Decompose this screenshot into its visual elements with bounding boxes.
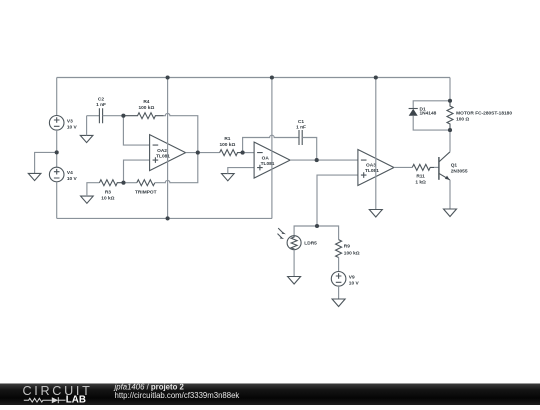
op-amp OA xyxy=(254,142,290,178)
wire left rail bottom xyxy=(56,182,58,219)
svg-text:10 V: 10 V xyxy=(349,280,360,286)
wire node down to OA2 minus input xyxy=(123,116,149,145)
wire OA3 output to R11 xyxy=(394,166,412,168)
svg-text:C2: C2 xyxy=(98,97,104,103)
wire V3 to node xyxy=(56,130,58,167)
svg-text:100 kΩ: 100 kΩ xyxy=(344,250,360,256)
wire node up to OA2 plus input xyxy=(124,160,150,183)
resistor R9 xyxy=(336,240,360,258)
resistor R4 xyxy=(123,99,163,119)
op-amp OA3 xyxy=(358,150,394,186)
svg-text:LDR5: LDR5 xyxy=(304,241,317,247)
ground for OA plus input xyxy=(222,174,235,181)
svg-text:10 V: 10 V xyxy=(67,176,78,182)
op-amp OA2 xyxy=(150,135,186,171)
wire OA2 output to R1 xyxy=(186,152,220,154)
svg-text:LAB: LAB xyxy=(66,395,86,405)
svg-text:1 nF: 1 nF xyxy=(296,125,306,131)
wire node to trimpot xyxy=(124,182,137,184)
resistor R1 xyxy=(219,136,242,155)
ground for OA3 xyxy=(369,210,382,218)
wire R3 left to ground xyxy=(87,183,100,196)
wire top rail right corner down xyxy=(449,78,451,101)
wire emitter down xyxy=(449,180,451,209)
wire D1 bottom branch xyxy=(413,116,450,131)
svg-text:TRIMPOT: TRIMPOT xyxy=(135,190,157,196)
node OA2 Vplus on top rail xyxy=(166,75,170,79)
wire collector up xyxy=(449,130,451,152)
node R3/TRIMPOT xyxy=(121,181,125,185)
footer bar xyxy=(0,383,540,405)
svg-text:R3: R3 xyxy=(105,190,111,196)
node OA output / C1 xyxy=(315,158,319,162)
node OA2 output xyxy=(196,151,200,155)
svg-text:MOTOR FC-280ST-18180: MOTOR FC-280ST-18180 xyxy=(456,111,512,117)
wire bottom rail xyxy=(57,217,272,219)
wire OA3 Vminus stub to ground xyxy=(375,186,377,210)
ground for C2 xyxy=(80,135,93,142)
voltage source V3 xyxy=(49,116,77,131)
wire C1 down to OA output xyxy=(302,138,317,161)
svg-text:V3: V3 xyxy=(67,118,73,124)
svg-text:OA2: OA2 xyxy=(157,148,167,154)
wire ground to C2 xyxy=(87,115,100,117)
wire node to left ground xyxy=(35,152,57,173)
node motor bottom xyxy=(448,128,452,132)
svg-text:V4: V4 xyxy=(67,170,73,176)
wire top rail xyxy=(57,77,450,79)
capacitor C1 xyxy=(296,119,306,145)
svg-text:TL081: TL081 xyxy=(261,161,275,167)
svg-text:1N4148: 1N4148 xyxy=(420,111,437,117)
wire R11 to base xyxy=(434,166,439,168)
transistor Q1 xyxy=(439,152,468,180)
wire node to OA minus input xyxy=(243,152,255,154)
wire OA3 plus input left and down xyxy=(317,175,358,226)
ground for R3 xyxy=(81,196,94,203)
wire node to R9 xyxy=(317,226,339,240)
motor (resistor symbol) xyxy=(447,101,512,130)
wire OA3 supply top xyxy=(375,78,377,186)
svg-text:C1: C1 xyxy=(298,119,304,125)
node OA2 Vminus on bottom rail xyxy=(166,216,170,220)
wire feedback up and right to C1 with hop over OA supply xyxy=(243,135,299,152)
wire OA2 supply rail vertical xyxy=(167,78,169,219)
svg-text:Q1: Q1 xyxy=(451,162,458,168)
svg-text:100 kΩ: 100 kΩ xyxy=(138,105,154,111)
photoresistor LDR5 xyxy=(278,228,318,250)
ground for LDR xyxy=(288,277,301,285)
node left rail mid xyxy=(55,150,59,154)
wire OA output to OA3 minus xyxy=(290,159,358,161)
capacitor C2 xyxy=(96,97,106,124)
wire R9 to V9 xyxy=(338,258,340,272)
svg-text:R11: R11 xyxy=(416,174,425,180)
wire R4 to corner with hop over OA2 supply xyxy=(164,113,198,152)
node motor top xyxy=(448,99,452,103)
svg-text:1 kΩ: 1 kΩ xyxy=(415,179,426,185)
svg-text:R9: R9 xyxy=(344,244,350,250)
svg-text:OA: OA xyxy=(262,155,270,161)
wire LDR to ground xyxy=(293,250,295,277)
svg-text:1 nF: 1 nF xyxy=(96,102,106,108)
svg-text:OA3: OA3 xyxy=(366,163,376,169)
svg-text:10 kΩ: 10 kΩ xyxy=(101,196,114,202)
wire trimpot to OA2 output with hop over supply xyxy=(155,153,198,183)
node C2/R4 xyxy=(121,114,125,118)
svg-text:10 V: 10 V xyxy=(67,124,78,130)
wire C2 ground stub xyxy=(86,116,88,136)
wire node to LDR xyxy=(294,226,317,236)
logo doodle wire xyxy=(24,397,66,403)
svg-text:http://circuitlab.com/cf3339m3: http://circuitlab.com/cf3339m3n88ek xyxy=(115,391,240,400)
node OA3 Vplus on top rail xyxy=(374,75,378,79)
resistor R11 xyxy=(412,164,434,185)
voltage source V4 xyxy=(49,167,77,182)
wire D1 top branch xyxy=(413,101,450,109)
svg-text:R4: R4 xyxy=(143,99,149,105)
node OA minus input xyxy=(241,151,245,155)
svg-text:jpfa1406 / projeto 2: jpfa1406 / projeto 2 xyxy=(114,383,185,391)
wire C2 to node xyxy=(103,115,124,117)
wire ground to OA plus input xyxy=(228,168,254,174)
resistor TRIMPOT xyxy=(135,180,157,196)
wire V9 to ground xyxy=(338,286,340,299)
svg-text:TL081: TL081 xyxy=(365,168,379,174)
svg-text:2N3055: 2N3055 xyxy=(451,168,468,174)
svg-text:V9: V9 xyxy=(349,274,355,280)
voltage source V9 xyxy=(331,272,359,287)
svg-text:100 Ω: 100 Ω xyxy=(456,116,469,122)
ground left mid xyxy=(28,173,41,180)
ground for Q1 emitter xyxy=(444,209,457,217)
node LDR/R9 xyxy=(315,224,319,228)
resistor R3 xyxy=(99,180,123,202)
svg-text:100 kΩ: 100 kΩ xyxy=(219,142,235,148)
ground for V9 xyxy=(332,299,345,307)
diode D1 xyxy=(409,106,437,116)
node OA Vplus on top rail xyxy=(270,75,274,79)
wire OA supply rail vertical xyxy=(271,78,273,219)
wire left rail top (to V3) xyxy=(56,78,58,116)
svg-text:R1: R1 xyxy=(224,136,230,142)
